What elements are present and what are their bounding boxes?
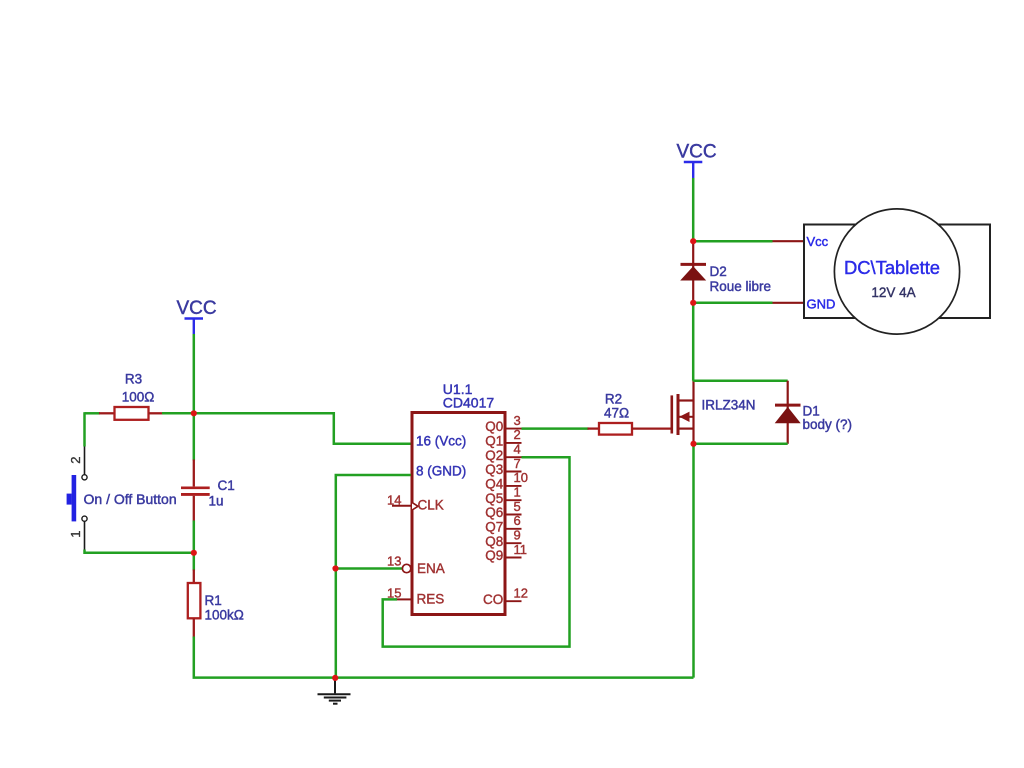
resistor R2 body bbox=[599, 423, 632, 435]
svg-text:8 (GND): 8 (GND) bbox=[416, 464, 466, 479]
capacitor C1 plate bottom bbox=[181, 493, 210, 496]
diode D2 cathode bar bbox=[681, 263, 707, 266]
transistor Q IRLZ34N source lead bbox=[678, 428, 694, 430]
svg-text:Q2: Q2 bbox=[485, 448, 503, 463]
node C junction dot bbox=[690, 238, 696, 244]
transistor Q IRLZ34N bulk lead bbox=[678, 416, 694, 418]
IC U1.1 body bbox=[412, 413, 505, 615]
diode D2 triangle bbox=[680, 266, 706, 280]
power symbol VCC (left) stub bbox=[193, 319, 195, 335]
IC pin 13 ENA bubble bbox=[402, 564, 410, 572]
svg-text:On / Off Button: On / Off Button bbox=[84, 491, 177, 507]
svg-text:R3: R3 bbox=[125, 372, 142, 387]
diode D2 lead vertical bbox=[692, 241, 694, 303]
svg-text:GND: GND bbox=[807, 296, 836, 311]
svg-text:R1: R1 bbox=[205, 593, 222, 608]
transistor Q IRLZ34N drain lead bbox=[678, 399, 694, 401]
svg-text:body (?): body (?) bbox=[803, 417, 853, 432]
svg-text:Q0: Q0 bbox=[485, 419, 503, 434]
wire IC pin 8 to ground rail bbox=[336, 475, 411, 678]
node source junction dot bbox=[690, 441, 696, 447]
svg-text:VCC: VCC bbox=[676, 142, 716, 163]
motor M1 body box bbox=[804, 225, 990, 319]
IC CLK wedge bbox=[412, 502, 418, 510]
svg-text:1: 1 bbox=[68, 531, 83, 538]
power symbol VCC (right) stub bbox=[692, 162, 694, 178]
svg-text:7: 7 bbox=[514, 456, 521, 471]
transistor Q IRLZ34N channel bar bbox=[677, 394, 680, 435]
resistor R3 lead right green bbox=[162, 412, 194, 415]
resistor R1 lead top bbox=[193, 570, 195, 584]
button SW1 pin 1 circle bbox=[82, 516, 87, 521]
svg-text:RES: RES bbox=[417, 591, 445, 606]
IC pin names Q0-Q9 CO bbox=[483, 419, 504, 607]
svg-text:16 (Vcc): 16 (Vcc) bbox=[416, 433, 466, 448]
IC pin 14 CLK stub bbox=[392, 505, 411, 507]
svg-text:2: 2 bbox=[514, 427, 521, 442]
wire VCC to node A bbox=[193, 334, 196, 413]
svg-text:6: 6 bbox=[514, 513, 521, 528]
svg-text:VCC: VCC bbox=[176, 298, 216, 319]
diode D1 triangle bbox=[775, 407, 801, 423]
transistor Q IRLZ34N gate bar bbox=[670, 395, 673, 433]
capacitor C1 lead top bbox=[193, 460, 195, 487]
svg-text:47Ω: 47Ω bbox=[604, 406, 629, 421]
button SW1 knob bbox=[67, 494, 72, 505]
motor GND pin lead bbox=[773, 302, 805, 304]
svg-text:DC\Tablette: DC\Tablette bbox=[844, 257, 940, 278]
svg-text:CO: CO bbox=[483, 592, 503, 607]
svg-text:100kΩ: 100kΩ bbox=[205, 608, 244, 623]
svg-text:Q6: Q6 bbox=[485, 505, 503, 520]
svg-text:CLK: CLK bbox=[418, 498, 444, 513]
svg-text:Vcc: Vcc bbox=[807, 234, 829, 249]
IC right pin numbers bbox=[514, 413, 528, 601]
node ENA junction dot bbox=[332, 565, 338, 571]
svg-text:Roue libre: Roue libre bbox=[710, 279, 772, 294]
ground junction dot bbox=[332, 675, 338, 681]
svg-text:Q5: Q5 bbox=[485, 491, 503, 506]
svg-text:5: 5 bbox=[514, 499, 521, 514]
svg-text:100Ω: 100Ω bbox=[122, 390, 155, 405]
wire VCC down to node C bbox=[692, 178, 695, 241]
svg-text:14: 14 bbox=[387, 493, 401, 508]
button SW1 pin 1 lead bbox=[84, 521, 86, 549]
svg-text:Q1: Q1 bbox=[485, 434, 503, 449]
IC right pin stubs Q0-Q9 CO bbox=[505, 429, 522, 602]
wire node B to R1 bbox=[193, 553, 196, 571]
svg-text:D2: D2 bbox=[710, 264, 727, 279]
transistor Q IRLZ34N bulk arrow bbox=[679, 412, 689, 422]
svg-text:Q8: Q8 bbox=[485, 534, 503, 549]
resistor R2 lead right to gate bbox=[632, 427, 671, 429]
node B junction dot bbox=[191, 550, 197, 556]
svg-text:Q7: Q7 bbox=[485, 519, 503, 534]
transistor Q IRLZ34N right vertical lead bbox=[692, 381, 694, 444]
node A junction dot bbox=[191, 410, 197, 416]
svg-text:2: 2 bbox=[68, 457, 83, 464]
wire node A down to C1 bbox=[193, 413, 196, 460]
svg-text:CD4017: CD4017 bbox=[443, 395, 495, 411]
motor M1 rotor circle bbox=[834, 209, 959, 334]
svg-text:1u: 1u bbox=[209, 494, 224, 509]
capacitor C1 plate top bbox=[181, 486, 210, 489]
capacitor C1 lead bottom bbox=[193, 496, 195, 522]
resistor R3 lead left bbox=[99, 412, 115, 414]
svg-text:Q3: Q3 bbox=[485, 462, 503, 477]
wire Q0 to R2 bbox=[522, 427, 589, 430]
resistor R1 lead bottom bbox=[193, 618, 195, 637]
wire drain top to D1 bbox=[693, 379, 788, 382]
button SW1 pin 2 lead bbox=[84, 447, 86, 475]
resistor R2 lead left bbox=[588, 427, 600, 429]
wire node A to IC pin 16 bbox=[194, 413, 411, 444]
power symbol VCC (left) bar bbox=[185, 317, 204, 320]
svg-text:IRLZ34N: IRLZ34N bbox=[702, 397, 756, 412]
svg-text:3: 3 bbox=[514, 413, 521, 428]
wire button pin2 up to R3 bbox=[83, 412, 86, 446]
wire source to ground rail bbox=[692, 444, 695, 678]
svg-text:12V 4A: 12V 4A bbox=[871, 285, 915, 300]
resistor R3 lead left green bbox=[85, 412, 101, 415]
ground symbol bbox=[318, 681, 351, 704]
wire button pin1 to node B bbox=[85, 550, 194, 553]
wire ENA junction to pin 13 bbox=[336, 567, 403, 570]
svg-text:C1: C1 bbox=[218, 478, 235, 493]
resistor R1 body bbox=[188, 583, 201, 618]
wire D1 bottom to source junction bbox=[693, 443, 788, 446]
button SW1 actuator bar bbox=[72, 475, 77, 521]
svg-text:12: 12 bbox=[514, 586, 528, 601]
wire node C to motor Vcc green bbox=[693, 240, 772, 243]
svg-text:10: 10 bbox=[514, 470, 528, 485]
wire Q2 to RES loop bbox=[383, 457, 570, 646]
wire node D down to drain bbox=[692, 303, 695, 381]
svg-text:1: 1 bbox=[514, 485, 521, 500]
diode D1 cathode bar bbox=[775, 404, 801, 407]
diode D1 lead vertical bbox=[787, 381, 789, 444]
svg-text:9: 9 bbox=[514, 528, 521, 543]
svg-text:ENA: ENA bbox=[417, 561, 445, 576]
svg-text:4: 4 bbox=[514, 442, 521, 457]
resistor R3 body bbox=[115, 407, 149, 420]
svg-text:11: 11 bbox=[514, 542, 528, 557]
wire R1 to ground rail bbox=[194, 637, 694, 678]
resistor R3 lead right bbox=[149, 412, 164, 414]
svg-text:13: 13 bbox=[387, 554, 401, 569]
svg-text:R2: R2 bbox=[605, 392, 622, 407]
power symbol VCC (right) bar bbox=[684, 161, 703, 164]
wire node D to motor GND green bbox=[693, 302, 772, 305]
wire C1 to node B bbox=[193, 521, 196, 553]
button SW1 pin 2 circle bbox=[82, 475, 87, 480]
IC pin 15 RES stub bbox=[396, 598, 411, 600]
node D junction dot bbox=[690, 300, 696, 306]
svg-text:Q9: Q9 bbox=[485, 548, 503, 563]
motor Vcc pin lead bbox=[773, 240, 805, 242]
svg-text:Q4: Q4 bbox=[485, 477, 504, 492]
